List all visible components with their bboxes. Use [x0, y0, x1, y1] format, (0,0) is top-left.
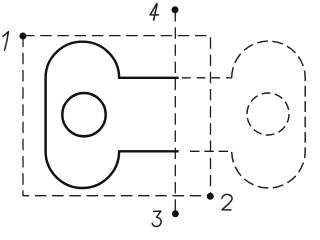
mirrored part tab bottom edge (dashed) — [190, 150, 232, 152]
axis line 4-3 (vertical dashed) — [174, 10, 176, 214]
point 2 — [207, 193, 214, 200]
label 1 — [3, 32, 8, 51]
construction rectangle top and right edges (dashed) — [23, 36, 211, 196]
label 2 — [222, 194, 232, 210]
point 1 — [19, 33, 26, 40]
construction rectangle left and bottom edges (dashed) — [23, 36, 211, 196]
solid hole circle — [62, 93, 105, 136]
solid part outline — [46, 42, 179, 188]
mirrored part tab top edge (dashed) — [182, 77, 232, 79]
point 3 — [172, 210, 179, 217]
label 4 — [150, 3, 158, 20]
mirrored part body outline (dashed) — [232, 41, 306, 188]
label 3 — [152, 211, 161, 226]
mirrored hole circle (dashed) — [247, 93, 289, 135]
point 4 — [172, 6, 179, 13]
